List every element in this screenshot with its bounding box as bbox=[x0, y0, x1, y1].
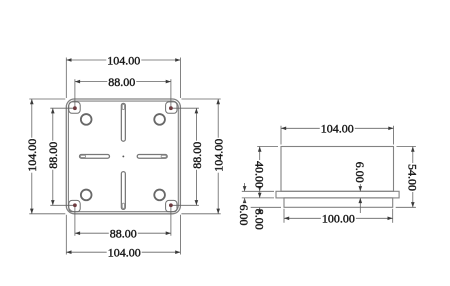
svg-text:88.00: 88.00 bbox=[46, 142, 60, 169]
svg-text:88.00: 88.00 bbox=[108, 75, 135, 89]
svg-text:104.00: 104.00 bbox=[25, 139, 39, 172]
svg-text:88.00: 88.00 bbox=[190, 142, 204, 169]
svg-text:6.00: 6.00 bbox=[237, 205, 251, 226]
svg-text:6.00: 6.00 bbox=[353, 162, 367, 183]
svg-text:8.00: 8.00 bbox=[252, 209, 266, 230]
svg-text:100.00: 100.00 bbox=[322, 212, 355, 226]
svg-text:104.00: 104.00 bbox=[321, 122, 354, 136]
svg-text:104.00: 104.00 bbox=[212, 139, 226, 172]
svg-text:88.00: 88.00 bbox=[110, 227, 137, 241]
svg-text:54.00: 54.00 bbox=[405, 164, 419, 191]
svg-text:104.00: 104.00 bbox=[108, 246, 141, 260]
svg-text:40.00: 40.00 bbox=[252, 161, 266, 188]
svg-text:104.00: 104.00 bbox=[107, 53, 140, 67]
